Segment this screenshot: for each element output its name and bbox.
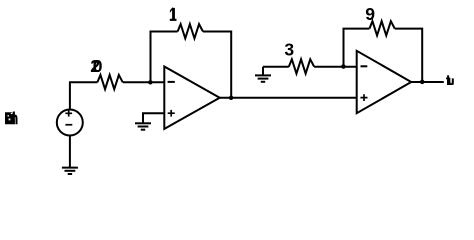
junction node D at U2 output xyxy=(420,80,425,85)
op-amp U2 minus sign (inverting input) xyxy=(361,65,368,67)
svg-text:3: 3 xyxy=(284,40,294,60)
op-amp U1 xyxy=(164,67,219,129)
wire R2 to op-amp U1 inverting input xyxy=(123,81,165,83)
node out label xyxy=(446,75,454,85)
svg-text:0: 0 xyxy=(93,56,103,76)
label R3 value 3 xyxy=(284,40,294,60)
resistor R1 (feedback) xyxy=(178,24,203,38)
ground G3 at resistor R3 xyxy=(255,67,271,82)
label R1 value 1 xyxy=(170,8,176,21)
wire R1 to U1 output node xyxy=(203,32,231,98)
op-amp U1 minus sign (inverting input) xyxy=(168,81,175,83)
op-amp U2 xyxy=(357,51,412,113)
op-amp U2 plus sign (non-inverting input) xyxy=(360,94,367,101)
wire R3 to U2 inverting input xyxy=(314,66,357,68)
wire G3 to R3 xyxy=(263,66,289,68)
wire U1 output to U2 non-inverting input xyxy=(220,97,357,99)
wire V1 top to R2 xyxy=(70,82,98,110)
label R9 value 9 xyxy=(365,4,375,24)
voltage source V1 minus sign xyxy=(65,124,72,126)
voltage source V1 xyxy=(57,110,83,136)
resistor R3 xyxy=(289,59,314,73)
junction node B at U1 output xyxy=(229,96,234,101)
wire R9 down to U2 output node xyxy=(395,29,422,82)
node Vin label xyxy=(5,112,18,125)
voltage source V1 plus sign xyxy=(65,110,72,117)
ground G1 below source xyxy=(62,168,78,174)
wire U2 output to out label xyxy=(411,81,444,83)
junction node A at U1 inverting input xyxy=(148,80,153,85)
wire U1 non-inverting input to ground G2 xyxy=(143,113,164,123)
wire V1 bottom to ground xyxy=(69,135,71,167)
resistor R2 xyxy=(97,75,122,89)
wire node C up to feedback resistor R9 xyxy=(344,29,370,67)
op-amp U1 plus sign (non-inverting input) xyxy=(168,110,175,117)
wire node A up to feedback resistor R1 xyxy=(151,32,178,83)
ground G2 at U1 non-inverting input xyxy=(135,123,151,129)
svg-text:9: 9 xyxy=(365,4,375,24)
junction node C at U2 inverting input xyxy=(341,64,346,69)
label R2 value 2 (overlapped 0) xyxy=(90,56,103,76)
resistor R9 (feedback) xyxy=(369,21,394,35)
